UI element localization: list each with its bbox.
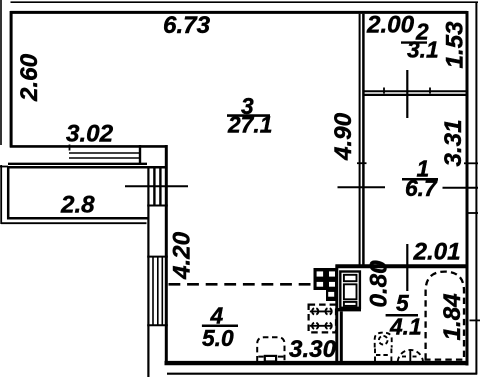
svg-text:2.00: 2.00	[366, 12, 415, 39]
svg-text:5: 5	[396, 290, 409, 316]
svg-text:3.02: 3.02	[66, 121, 114, 148]
svg-text:2.8: 2.8	[60, 192, 95, 219]
svg-text:4.1: 4.1	[389, 314, 422, 340]
svg-text:5.0: 5.0	[202, 325, 234, 351]
svg-text:0.80: 0.80	[366, 260, 393, 308]
svg-text:1.53: 1.53	[442, 21, 469, 69]
svg-text:3.1: 3.1	[407, 37, 439, 63]
svg-text:2.01: 2.01	[413, 239, 461, 266]
svg-text:3.31: 3.31	[440, 119, 467, 166]
svg-text:3.30: 3.30	[289, 336, 337, 363]
svg-text:4.90: 4.90	[330, 112, 357, 161]
svg-text:1.84: 1.84	[439, 293, 466, 341]
svg-text:4.20: 4.20	[169, 231, 196, 280]
svg-text:6.73: 6.73	[163, 12, 211, 39]
svg-text:2.60: 2.60	[16, 53, 43, 102]
